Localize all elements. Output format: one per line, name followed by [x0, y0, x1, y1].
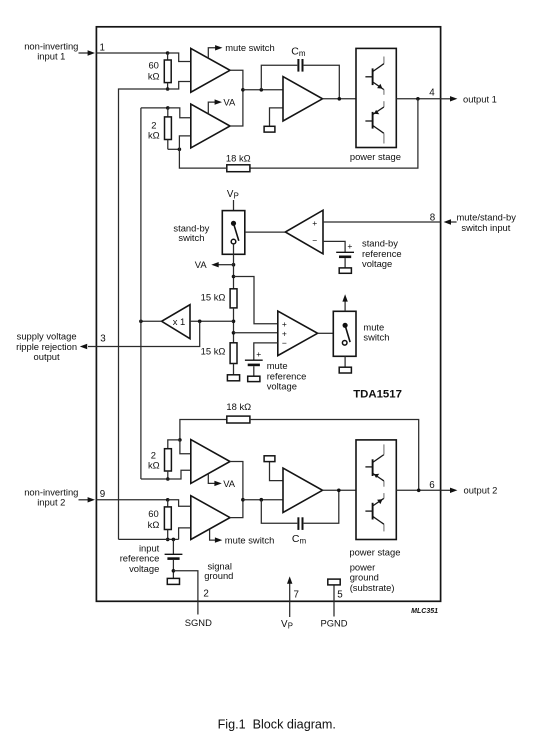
resistor 60 kOhm (ch1) [164, 53, 171, 89]
value label 15 kOhm (lower) [201, 345, 226, 356]
svg-text:VA: VA [223, 478, 236, 489]
svg-text:8: 8 [430, 212, 436, 223]
label non-inverting input 1 [24, 41, 78, 62]
node K junction (mute + 2 tap) [232, 331, 236, 335]
label mute switch (S2) [363, 322, 389, 343]
svg-text:Fig.1 Block diagram.: Fig.1 Block diagram. [218, 718, 336, 732]
svg-text:output: output [34, 351, 60, 362]
label mute switch (A5) [225, 534, 274, 545]
node M junction (x1 bus) [139, 320, 143, 324]
wire x1-bus to node C [141, 107, 168, 109]
svg-text:60: 60 [148, 59, 158, 70]
resistor 15 kOhm (lower) [230, 343, 237, 375]
node E junction (output join) [241, 88, 245, 92]
wire input reference bus to node R [119, 538, 179, 540]
svg-text:voltage: voltage [362, 258, 392, 269]
node J junction (x1 node) [232, 320, 236, 324]
internal reference terminal (ch2 power amp) [264, 456, 283, 481]
label power stage (ch1) [350, 151, 401, 162]
svg-text:15 kΩ: 15 kΩ [201, 345, 226, 356]
pin number 7 [294, 590, 299, 601]
comparator B1 (stand-by) [285, 210, 323, 254]
net label VP (pin 7) [281, 619, 293, 631]
label signal ground [204, 560, 233, 581]
label SGND [185, 617, 212, 628]
pin number 1 [100, 42, 105, 53]
wire node E to power amp input [243, 89, 283, 91]
wire B1 + input to pin 8 [323, 221, 441, 223]
pin 5 PGND terminal [328, 579, 340, 616]
mute switch control arrow (A1) [208, 45, 222, 58]
label mute switch (A1) [225, 42, 275, 53]
resistor 15 kOhm (upper) [230, 289, 237, 343]
node G junction (Cm right) [338, 97, 342, 101]
wire node O to amp A4 - input [168, 470, 191, 479]
svg-text:P: P [234, 192, 239, 201]
battery stand-by reference voltage [323, 241, 354, 273]
wire node U to power amp input ch2 [243, 499, 283, 501]
svg-text:x 1: x 1 [173, 316, 186, 327]
wire pin 3 to node L [96, 321, 199, 346]
node T junction (signal ground tap) [172, 569, 176, 573]
label power stage (ch2) [349, 546, 400, 557]
resistor 18 kOhm (ch1) [179, 149, 250, 171]
svg-text:+: + [347, 241, 352, 251]
label supply voltage ripple rejection output [16, 331, 77, 363]
label stand-by switch [173, 222, 209, 243]
svg-text:9: 9 [100, 489, 105, 500]
resistor 2 kOhm (ch2) [165, 440, 180, 479]
svg-text:switch: switch [178, 232, 204, 243]
wire VP to stand-by switch [233, 200, 235, 223]
label VA (A4) [223, 478, 236, 489]
wire power stage to pin 6 [396, 489, 440, 491]
resistor 2 kOhm (ch1) [165, 108, 172, 149]
pin 9 input arrow [79, 497, 96, 502]
svg-text:voltage: voltage [267, 381, 297, 392]
ground terminal (mute switch) [339, 356, 351, 373]
pin number 4 [429, 88, 435, 99]
svg-text:+: + [312, 218, 317, 228]
wire node B to input-reference bus [119, 89, 168, 539]
pin number 9 [100, 489, 105, 500]
svg-text:ground: ground [204, 570, 233, 581]
svg-text:MLC351: MLC351 [411, 608, 438, 615]
value label 2 kOhm [148, 120, 160, 141]
svg-text:P: P [288, 622, 293, 631]
svg-text:ground: ground [350, 572, 379, 583]
label output 2 [464, 485, 498, 496]
pin 7 VP arrow [287, 576, 292, 617]
node X junction (output 2 feedback tap) [417, 489, 421, 493]
pin 6 output arrow [441, 488, 458, 493]
net label VP (standby) [227, 189, 239, 201]
svg-text:PGND: PGND [320, 617, 347, 628]
svg-text:kΩ: kΩ [148, 70, 160, 81]
value label 60 kOhm [148, 59, 160, 81]
wire joining A1 and A2 outputs [230, 70, 243, 126]
svg-text:4: 4 [429, 88, 435, 99]
VA control arrow (A4) [208, 474, 222, 486]
svg-text:mute switch: mute switch [225, 42, 275, 53]
svg-text:voltage: voltage [129, 563, 159, 574]
comparator B2 (mute) [278, 311, 318, 356]
power stage box (ch2) [356, 440, 396, 540]
wire node R to amp A5 - input [179, 528, 191, 540]
battery input reference voltage [165, 539, 183, 578]
VA control arrow (A2) [208, 99, 222, 113]
value label 18 kOhm (ch2) [226, 401, 251, 412]
label VA (A2) [223, 96, 236, 107]
op-amp A2 (ch1 reference stage) [191, 104, 230, 148]
wire feedback from pin4 node to 18k [250, 99, 418, 168]
wire node P to amp A5 + input [168, 500, 191, 506]
wire switch to comparator B1 [245, 231, 285, 233]
power stage box (ch1) [356, 48, 396, 147]
svg-text:5: 5 [337, 590, 343, 601]
svg-text:+: + [256, 349, 261, 359]
pin number 6 [429, 480, 435, 491]
svg-text:mute/stand-by: mute/stand-by [457, 211, 517, 222]
pin number 8 [430, 212, 436, 223]
pin 8 input arrow [444, 219, 457, 224]
svg-text:input 1: input 1 [37, 50, 65, 61]
svg-text:2: 2 [203, 589, 208, 600]
node P junction (60k top ch2) [166, 498, 170, 502]
value label Cm (ch2) [292, 533, 307, 545]
label mute/stand-by switch input [457, 211, 517, 233]
buffer U1 x1 [162, 305, 190, 339]
wire node I to mute comparator + input [234, 277, 278, 324]
wire pin1 to node A [96, 52, 167, 54]
svg-text:kΩ: kΩ [148, 459, 160, 470]
label mute reference voltage [267, 360, 307, 392]
label input reference voltage [120, 542, 160, 574]
svg-text:switch input: switch input [461, 222, 510, 233]
node I junction (mute + tap) [232, 275, 236, 279]
op-amp A6 (ch2 power amp) [283, 468, 323, 512]
resistor 18 kOhm (ch2) [180, 416, 419, 490]
op-amp A4 (ch2 reference stage) [191, 440, 230, 484]
svg-text:7: 7 [294, 590, 299, 601]
svg-text:power stage: power stage [349, 546, 400, 557]
value label Cm (ch1) [291, 46, 306, 58]
wire node O to x1 bus [141, 478, 168, 480]
node C junction (2k top) [166, 106, 170, 110]
mute switch control arrow (A5) [210, 530, 223, 543]
wire joining A4 and A5 outputs [230, 462, 243, 518]
node B junction (60k bottom) [166, 87, 170, 91]
net label VA (middle) [195, 259, 208, 270]
svg-text:+: + [282, 319, 287, 329]
ground terminal (input reference) [167, 578, 179, 584]
label stand-by reference voltage [362, 238, 402, 269]
svg-text:VA: VA [195, 259, 208, 270]
value label 2 kOhm (ch2) [148, 449, 160, 470]
svg-text:60: 60 [148, 508, 158, 519]
svg-text:mute switch: mute switch [225, 534, 274, 545]
svg-text:SGND: SGND [185, 617, 212, 628]
svg-text:18 kΩ: 18 kΩ [226, 152, 251, 163]
label MLC351 [411, 608, 438, 615]
svg-text:m: m [300, 536, 307, 545]
caption Fig.1 [218, 718, 336, 732]
mute switch S2 [333, 311, 356, 356]
value label 60 kOhm (ch2) [148, 508, 160, 530]
svg-text:kΩ: kΩ [148, 130, 160, 141]
label non-inverting input 2 [24, 487, 78, 508]
wire A3 output to power stage [323, 98, 357, 100]
wire buffer input to node J [190, 320, 234, 322]
op-amp A5 (ch2 input stage) [191, 496, 230, 540]
pin 3 output arrow [80, 344, 97, 349]
op-amp A1 (ch1 input stage) [191, 48, 230, 92]
svg-text:18 kΩ: 18 kΩ [226, 401, 251, 412]
node D junction (feedback node ch1) [178, 148, 182, 152]
transistor Q2 (ch1 lower PNP) [365, 101, 384, 143]
transistor Q1 (ch1 upper NPN) [365, 57, 384, 95]
wire A6 output to power stage ch2 [323, 489, 357, 491]
label power ground (substrate) [350, 562, 395, 594]
node V junction (Cm tap ch2) [260, 498, 264, 502]
node Q junction (60k bottom ch2) [166, 538, 170, 542]
svg-text:input 2: input 2 [37, 497, 65, 508]
svg-text:15 kΩ: 15 kΩ [201, 291, 226, 302]
wire node K to mute comparator second + input [234, 332, 278, 334]
wire stand-by chain down [233, 244, 235, 289]
value label 18 kOhm (ch1) [226, 152, 251, 163]
wire pin9 to node P [96, 499, 167, 501]
svg-text:3: 3 [100, 334, 106, 345]
svg-text:−: − [312, 236, 317, 246]
wire node D to amp A2 - input [179, 136, 190, 149]
capacitor Cm (ch2) [261, 490, 339, 530]
pin 1 input arrow [79, 50, 96, 55]
internal reference terminal (ch1 power amp) [264, 108, 283, 132]
svg-text:output 1: output 1 [463, 94, 497, 105]
VA output arrow (middle) [211, 262, 235, 267]
pin number 5 [337, 590, 343, 601]
wire B2 output to mute switch [318, 332, 334, 334]
transistor Q4 (ch2 lower) [365, 444, 384, 486]
wire buffer output to x1 bus [141, 320, 162, 322]
wire power stage to pin 4 [396, 98, 440, 100]
wire 2k bottom to node D [168, 148, 180, 150]
svg-text:switch: switch [363, 332, 389, 343]
node F junction (Cm tap) [260, 88, 264, 92]
wire node B to amp1 - input [168, 82, 191, 90]
pin 4 output arrow [441, 96, 458, 101]
label PGND [320, 617, 347, 628]
node O junction (2k bottom ch2) [166, 477, 170, 481]
svg-text:6: 6 [429, 480, 435, 491]
node L junction (pin3 tap) [198, 320, 202, 324]
svg-text:power stage: power stage [350, 151, 401, 162]
svg-text:m: m [299, 49, 306, 58]
wire x1 bus vertical [140, 108, 142, 479]
pin number 2 [203, 589, 208, 600]
label TDA1517 [353, 389, 402, 401]
svg-text:1: 1 [100, 42, 105, 53]
node N junction (feedback node ch2) [178, 438, 182, 442]
node H junction (output 1 feedback tap) [416, 97, 420, 101]
value label 15 kOhm (upper) [201, 291, 226, 302]
svg-text:VA: VA [223, 96, 236, 107]
node S junction (battery tap) [172, 538, 176, 542]
capacitor Cm (ch1) [261, 59, 339, 99]
svg-text:−: − [282, 338, 287, 348]
resistor 60 kOhm (ch2) [164, 500, 171, 540]
op-amp A3 (ch1 power amp) [283, 77, 323, 121]
mute switch up arrow [342, 294, 347, 311]
wire node T to pin 2 SGND [173, 571, 198, 615]
stand-by switch S1 [222, 211, 245, 255]
IC boundary box [96, 27, 440, 602]
svg-text:TDA1517: TDA1517 [353, 389, 402, 401]
label output 1 [463, 94, 497, 105]
wire node N to amp A4 + input [180, 440, 191, 454]
node W junction (Cm right ch2) [337, 489, 341, 493]
svg-text:kΩ: kΩ [148, 519, 160, 530]
transistor Q3 (ch2 upper) [365, 493, 384, 531]
battery mute reference voltage [245, 343, 278, 382]
wire node A to amp1 + input [168, 53, 191, 62]
wire node C to amp A2 + input [168, 108, 191, 118]
svg-text:(substrate): (substrate) [350, 582, 395, 593]
node U junction (output join ch2) [241, 498, 245, 502]
pin number 3 [100, 334, 106, 345]
svg-text:output 2: output 2 [464, 485, 498, 496]
node A junction [166, 51, 170, 55]
ground terminal (15k lower) [227, 375, 239, 381]
